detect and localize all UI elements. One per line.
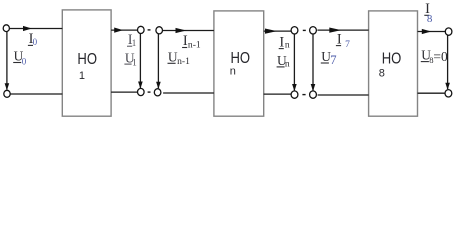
svg-text:0: 0 — [33, 37, 38, 47]
svg-text:n-1: n-1 — [177, 56, 190, 67]
svg-text:1: 1 — [79, 70, 85, 82]
svg-text:7: 7 — [330, 53, 336, 67]
svg-text:НО: НО — [382, 51, 402, 68]
svg-text:НО: НО — [77, 51, 97, 68]
svg-text:n: n — [285, 58, 290, 69]
svg-text:1: 1 — [132, 58, 137, 68]
svg-text:8: 8 — [427, 13, 433, 25]
svg-text:8: 8 — [379, 68, 385, 80]
svg-text:n: n — [285, 39, 290, 50]
svg-text:1: 1 — [132, 38, 137, 48]
svg-text:I: I — [279, 34, 284, 50]
svg-text:7: 7 — [345, 39, 350, 50]
svg-text:n-1: n-1 — [188, 39, 201, 50]
svg-text:I: I — [337, 31, 342, 47]
svg-text:=0: =0 — [433, 49, 448, 64]
svg-text:n: n — [230, 66, 236, 78]
svg-text:0: 0 — [22, 56, 27, 66]
